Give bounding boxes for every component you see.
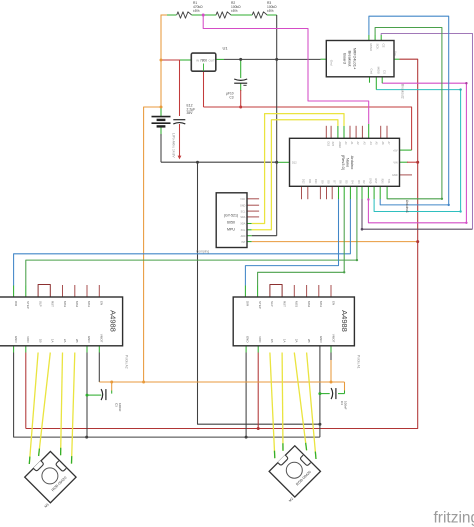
svg-text:NRF24L01+: NRF24L01+ [353, 48, 358, 70]
svg-text:MS2: MS2 [75, 301, 79, 308]
svg-text:6050: 6050 [227, 221, 235, 225]
svg-text:±5%: ±5% [231, 9, 238, 13]
svg-text:EN: EN [99, 301, 103, 305]
svg-text:(GY-521): (GY-521) [224, 214, 238, 218]
svg-text:MS3: MS3 [295, 301, 299, 308]
svg-text:VMOT: VMOT [99, 334, 103, 343]
svg-text:D12: D12 [302, 179, 305, 184]
svg-text:C3: C3 [229, 95, 233, 99]
svg-text:100nF: 100nF [343, 401, 347, 410]
svg-text:MS2: MS2 [307, 301, 311, 308]
svg-text:RST: RST [282, 301, 286, 307]
svg-text:1A: 1A [282, 339, 286, 343]
svg-text:35V: 35V [187, 111, 194, 115]
svg-text:SCK: SCK [375, 44, 379, 50]
svg-text:U1: U1 [223, 46, 229, 51]
svg-text:SDA: SDA [240, 216, 245, 219]
svg-text:D11: D11 [308, 179, 311, 184]
svg-text:XDA: XDA [240, 223, 245, 226]
svg-text:Breakout: Breakout [348, 50, 353, 67]
svg-text:MPU: MPU [227, 228, 235, 232]
svg-text:RST: RST [51, 301, 55, 307]
svg-text:±5%: ±5% [193, 9, 200, 13]
svg-text:D13: D13 [326, 142, 329, 147]
svg-text:VDD: VDD [26, 336, 30, 343]
svg-text:VIN: VIN [393, 161, 397, 164]
svg-text:VCC: VCC [240, 198, 245, 201]
svg-text:Nano: Nano [346, 158, 351, 168]
svg-text:DIR: DIR [246, 301, 250, 307]
svg-text:A4988: A4988 [340, 310, 349, 332]
svg-text:Pololu A2: Pololu A2 [125, 355, 129, 369]
svg-text:MISO: MISO [369, 44, 373, 52]
svg-text:EN: EN [331, 301, 335, 305]
svg-text:AD0: AD0 [241, 235, 246, 238]
svg-text:SLP: SLP [38, 301, 42, 307]
svg-text:100nF: 100nF [118, 403, 122, 412]
svg-text:1A: 1A [51, 339, 55, 343]
svg-text:2A: 2A [295, 339, 299, 343]
svg-text:DIR: DIR [14, 301, 18, 307]
svg-text:INT: INT [241, 241, 245, 244]
svg-text:STEP: STEP [26, 301, 30, 309]
svg-text:SCL: SCL [241, 210, 246, 213]
svg-text:Gnd: Gnd [330, 60, 334, 66]
svg-text:MS1: MS1 [87, 301, 91, 308]
svg-text:XCL: XCL [241, 229, 246, 232]
svg-text:±5%: ±5% [267, 9, 274, 13]
svg-text:1B: 1B [38, 339, 42, 343]
svg-text:GND: GND [240, 204, 246, 207]
svg-text:Gnd: Gnd [370, 69, 374, 75]
svg-text:Comping: Comping [196, 250, 209, 254]
svg-text:A4988: A4988 [108, 310, 117, 332]
svg-text:GND: GND [369, 178, 372, 184]
svg-text:MOSI: MOSI [377, 67, 381, 75]
svg-text:Board: Board [343, 53, 348, 64]
svg-text:fritzing: fritzing [434, 510, 474, 527]
svg-text:(Rev3.0): (Rev3.0) [341, 155, 346, 171]
svg-text:Breakout2: Breakout2 [401, 84, 405, 99]
svg-text:STEP: STEP [258, 301, 262, 309]
svg-text:RX0: RX0 [380, 179, 383, 184]
svg-text:2B: 2B [75, 339, 79, 343]
svg-text:GND: GND [319, 336, 323, 344]
svg-text:VMOT: VMOT [331, 334, 335, 343]
svg-text:CE: CE [381, 44, 385, 48]
svg-text:Arduino1: Arduino1 [405, 200, 409, 213]
svg-text:GND: GND [14, 336, 18, 344]
svg-text:3V3: 3V3 [331, 142, 334, 147]
svg-text:CS: CS [382, 70, 386, 74]
svg-text:VDD: VDD [258, 336, 262, 343]
svg-text:MS3: MS3 [63, 301, 67, 308]
svg-text:Vcc: Vcc [394, 51, 398, 57]
svg-text:RST: RST [374, 179, 377, 184]
svg-text:OUT: OUT [208, 58, 215, 62]
svg-text:GND: GND [392, 174, 398, 177]
svg-text:Arduino: Arduino [350, 156, 355, 171]
svg-text:TX1: TX1 [387, 179, 390, 184]
svg-text:MS1: MS1 [319, 301, 323, 308]
svg-text:Pololu A1: Pololu A1 [356, 355, 360, 369]
svg-text:LiPo-Akku 14.8V: LiPo-Akku 14.8V [172, 133, 176, 158]
svg-text:C4: C4 [340, 401, 344, 405]
svg-text:2A: 2A [63, 339, 67, 343]
svg-text:1B: 1B [270, 339, 274, 343]
svg-text:SLP: SLP [270, 301, 274, 307]
svg-text:+5V: +5V [393, 149, 398, 152]
svg-text:C3: C3 [115, 403, 119, 407]
svg-text:7800: 7800 [200, 58, 207, 62]
svg-text:GND: GND [87, 336, 91, 344]
svg-text:IN: IN [196, 58, 199, 62]
svg-text:GND: GND [246, 336, 250, 344]
svg-text:D12: D12 [292, 162, 297, 165]
svg-text:AREF: AREF [338, 142, 341, 149]
svg-text:2B: 2B [307, 339, 311, 343]
svg-text:D10: D10 [314, 179, 317, 184]
